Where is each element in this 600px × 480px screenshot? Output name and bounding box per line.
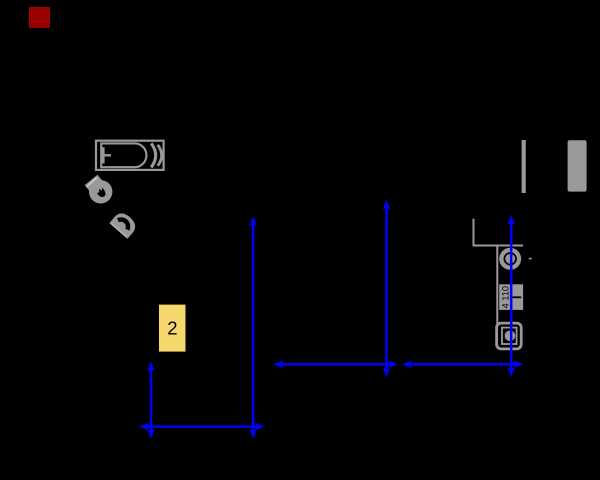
bottom pipe arrow right (255, 423, 265, 431)
bottom pipe arrow left (139, 423, 149, 431)
gas meter (497, 323, 522, 349)
washing machine (568, 140, 587, 191)
mid pipe right segment (409, 363, 518, 366)
pipe C vertical (385, 207, 388, 368)
wall bracket L (474, 219, 524, 246)
bathtub (96, 141, 164, 170)
pipe D arrow down (507, 367, 515, 377)
bottom pipe horizontal (146, 425, 256, 428)
pipe A arrow up (249, 216, 257, 226)
pipe B arrow up (147, 361, 155, 371)
wall segment (top right) (522, 140, 526, 193)
toilet (82, 173, 117, 209)
mid pipe right segment arrow right (514, 360, 524, 368)
sink (109, 210, 139, 239)
pipe D arrow up (507, 215, 515, 225)
boiler block (499, 284, 523, 310)
pipe C arrow down (383, 367, 391, 377)
mid pipe left segment (280, 363, 392, 366)
svg-text:4 110: 4 110 (501, 286, 511, 309)
svg-text:2: 2 (167, 318, 177, 339)
mid pipe right segment arrow left (402, 360, 412, 368)
pump stub (529, 258, 532, 260)
legend color chip (dark red square) (29, 7, 50, 28)
boiler notch (512, 296, 522, 298)
pipe B arrow down (147, 429, 155, 439)
mid pipe left segment arrow left (274, 360, 284, 368)
room tag 2 (yellow) (159, 305, 186, 352)
mid pipe left segment arrow right (388, 360, 398, 368)
pipe C arrow up (383, 200, 391, 210)
pump (499, 248, 521, 270)
pipe B vertical (150, 368, 153, 430)
service drop line (496, 246, 498, 325)
pipe A vertical (252, 223, 255, 430)
gas meter dial (505, 331, 516, 342)
pipe A arrow down (249, 429, 257, 439)
pipe D vertical (510, 222, 513, 368)
